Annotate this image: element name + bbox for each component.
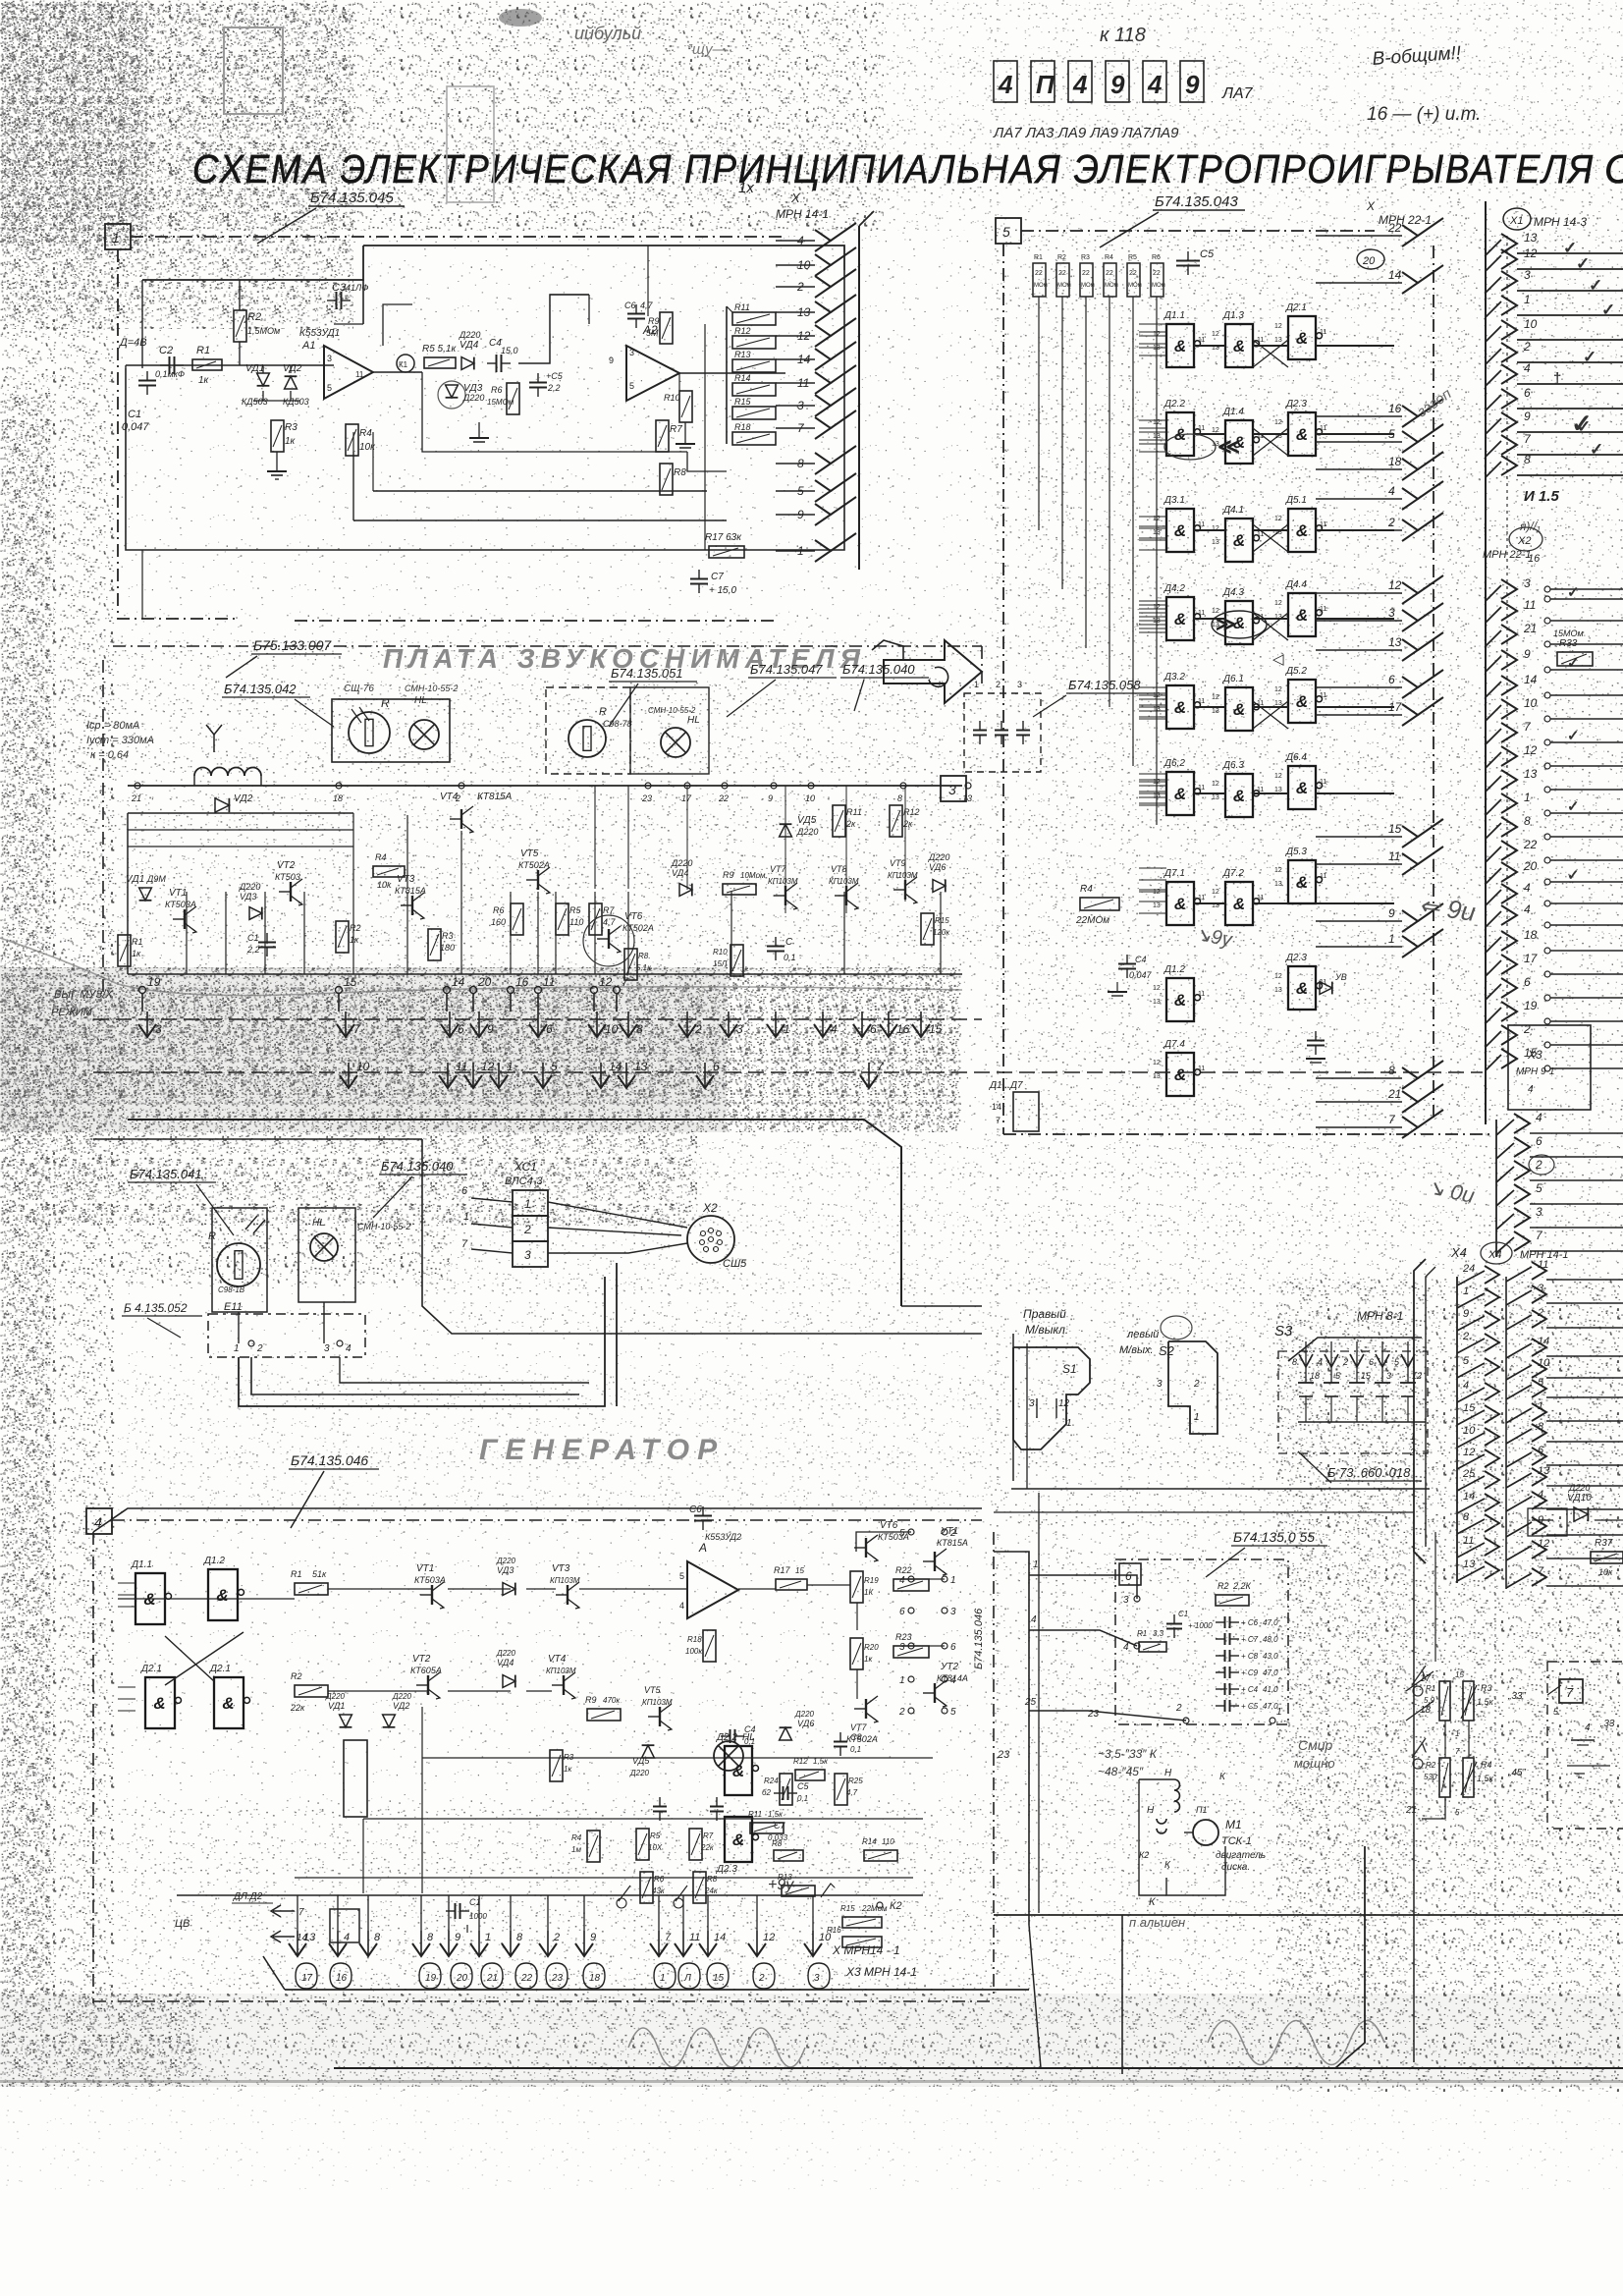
bottom dashed rails [93, 1018, 982, 1020]
svg-text:R19: R19 [864, 1576, 879, 1585]
svg-text:10: 10 [1524, 317, 1538, 331]
svg-text:21: 21 [1405, 1805, 1417, 1816]
transistor VT5 plate [526, 867, 550, 894]
gen right pin pairs [908, 1529, 914, 1535]
diode VD5 plate [780, 824, 792, 837]
svg-text:4: 4 [998, 70, 1013, 99]
svg-text:1: 1 [1410, 1432, 1416, 1443]
svg-text:Д1.3: Д1.3 [1222, 310, 1244, 321]
svg-text:С8: С8 [850, 1732, 862, 1742]
svg-text:R5: R5 [569, 905, 581, 915]
svg-text:R17 63к: R17 63к [705, 532, 742, 543]
motor coil [1174, 1779, 1180, 1790]
svg-text:ЦВ: ЦВ [175, 1918, 189, 1930]
svg-text:8: 8 [427, 1932, 434, 1943]
svg-text:4,7: 4,7 [846, 1788, 858, 1797]
svg-text:10: 10 [805, 793, 815, 803]
svg-text:21: 21 [486, 1973, 498, 1984]
svg-text:11: 11 [1198, 991, 1205, 998]
block 4 dashed border [112, 1519, 982, 1521]
svg-text:22: 22 [718, 793, 729, 803]
svg-text:5: 5 [551, 1060, 558, 1073]
ground A2 [684, 422, 686, 444]
svg-text:✓: ✓ [1601, 301, 1615, 319]
svg-text:R6: R6 [493, 905, 505, 915]
transistor VT6 gen [854, 1535, 878, 1561]
svg-text:25: 25 [1024, 1697, 1037, 1708]
svg-text:Б74.135.0 55: Б74.135.0 55 [1233, 1529, 1315, 1545]
svg-text:5М: 5М [646, 328, 659, 338]
svg-text:11: 11 [1257, 787, 1264, 793]
svg-text:двигатель: двигатель [1216, 1850, 1266, 1861]
svg-text:13: 13 [962, 793, 972, 803]
svg-text:13: 13 [1212, 539, 1219, 546]
svg-text:C3: C3 [332, 282, 347, 294]
trimmer R3 [1463, 1681, 1474, 1721]
svg-text:R4: R4 [1080, 884, 1093, 895]
svg-text:15: 15 [1388, 822, 1402, 836]
svg-text:4: 4 [1463, 1380, 1469, 1392]
svg-text:Х3 МРН 14-1: Х3 МРН 14-1 [845, 1965, 917, 1979]
svg-text:КТ605А: КТ605А [410, 1666, 442, 1675]
capacitor C4 gen [721, 1729, 744, 1743]
bottom long rail [93, 2000, 994, 2002]
svg-text:9: 9 [455, 1932, 460, 1943]
block 1 main loop [126, 368, 727, 550]
scan speckle top band right [884, 0, 1623, 231]
diode VD6 gen [780, 1727, 792, 1740]
svg-text:С98-78: С98-78 [603, 719, 632, 729]
svg-text:1: 1 [1276, 1707, 1282, 1718]
svg-text:VТ6: VТ6 [624, 911, 643, 922]
resistor R4 genl [587, 1831, 600, 1862]
scan smudge band fade2 [59, 1226, 452, 1285]
svg-text:VД6: VД6 [929, 862, 946, 872]
svg-text:15: 15 [795, 1566, 804, 1575]
svg-text:110: 110 [569, 917, 583, 927]
resistor R2 motor [1216, 1595, 1249, 1606]
svg-text:6: 6 [546, 1022, 553, 1036]
block 1 inner rect top [142, 246, 363, 280]
connector X3 circled row [296, 1963, 317, 1989]
svg-text:12: 12 [1274, 600, 1282, 607]
svg-text:&: & [1296, 329, 1308, 348]
resistor R23 gen [893, 1646, 929, 1658]
svg-text:18: 18 [333, 793, 343, 803]
svg-text:3: 3 [1123, 1595, 1129, 1606]
svg-text:КД503: КД503 [242, 397, 268, 407]
center region outline 2 [901, 1305, 982, 1307]
scan speckle bottom band wash [0, 1994, 1623, 2087]
scan speckle left margin deep [0, 393, 54, 1994]
gen long rows [422, 1757, 933, 1759]
svg-text:Д220: Д220 [239, 882, 260, 892]
resistor ladder R11-R18 [732, 312, 776, 325]
svg-text:15: 15 [1463, 1402, 1476, 1414]
plate extra vwires [186, 892, 188, 974]
svg-text:&: & [732, 1762, 744, 1780]
svg-text:12: 12 [763, 1932, 775, 1943]
svg-text:R4: R4 [375, 852, 387, 862]
svg-text:13: 13 [1153, 433, 1161, 440]
bottom row chevrons 1 [138, 1024, 156, 1037]
svg-text:23: 23 [997, 1749, 1010, 1761]
svg-text:4: 4 [1031, 1614, 1037, 1625]
svg-text:8: 8 [374, 1932, 381, 1943]
capacitor C6 gen [694, 1506, 712, 1530]
svg-text:R7: R7 [703, 1831, 714, 1840]
svg-text:R13: R13 [734, 350, 751, 359]
svg-text:R7: R7 [670, 424, 682, 435]
svg-text:11: 11 [1198, 1066, 1205, 1072]
svg-text:R5: R5 [650, 1831, 661, 1840]
svg-text:12: 12 [1212, 694, 1219, 701]
svg-text:2: 2 [1523, 1022, 1531, 1036]
svg-text:ЛА7: ЛА7 [1221, 85, 1254, 102]
svg-text:&: & [732, 1831, 744, 1849]
resistor R2 gen [295, 1685, 328, 1697]
svg-text:СМН-10-55-2: СМН-10-55-2 [357, 1222, 410, 1231]
svg-text:R3: R3 [442, 931, 454, 941]
svg-text:3: 3 [1029, 1398, 1035, 1409]
svg-text:3,3: 3,3 [1153, 1629, 1164, 1638]
svg-text:3: 3 [948, 782, 956, 797]
svg-text:2,2К: 2,2К [1232, 1581, 1252, 1591]
svg-text:1к: 1к [285, 436, 297, 447]
svg-text:РЕЖИМ: РЕЖИМ [51, 1007, 93, 1018]
svg-text:R33: R33 [1559, 638, 1578, 649]
svg-text:5: 5 [899, 1528, 905, 1539]
svg-text:Б74.135.046: Б74.135.046 [973, 1608, 985, 1669]
svg-text:10: 10 [1538, 1357, 1550, 1369]
svg-text:18: 18 [1310, 1371, 1320, 1381]
trimmer R2 [1439, 1758, 1450, 1797]
X3 MRN9-1 box [1508, 1025, 1591, 1110]
svg-text:МРН 9-1: МРН 9-1 [1516, 1066, 1554, 1077]
block 7 marker [1559, 1679, 1583, 1703]
svg-text:1: 1 [1066, 1418, 1072, 1429]
svg-text:✓: ✓ [1590, 440, 1603, 459]
scan speckle title strip [177, 137, 1453, 196]
svg-text:2: 2 [1409, 1448, 1416, 1458]
wire R2 up [239, 280, 241, 310]
svg-text:2: 2 [1462, 1331, 1469, 1342]
svg-text:С1: С1 [1178, 1610, 1188, 1618]
faint box top-left [224, 27, 283, 114]
svg-text:8: 8 [516, 1932, 523, 1943]
svg-text:Д1.2: Д1.2 [203, 1556, 225, 1566]
svg-text:С: С [785, 937, 793, 948]
plate inner wiring [127, 813, 129, 974]
svg-text:КП103М: КП103М [829, 877, 859, 886]
svg-text:11: 11 [1198, 337, 1205, 344]
svg-text:К2: К2 [890, 1900, 902, 1912]
svg-text:11: 11 [1538, 1259, 1548, 1271]
svg-text:12: 12 [1463, 1447, 1475, 1458]
svg-text:12: 12 [1058, 1398, 1070, 1409]
svg-text:+С5: +С5 [546, 371, 564, 381]
svg-text:R6: R6 [654, 1875, 665, 1884]
svg-text:КТ815А: КТ815А [937, 1538, 968, 1548]
svg-text:МОм: МОм [1105, 283, 1118, 289]
svg-text:11: 11 [1257, 337, 1264, 344]
svg-text:16: 16 [1528, 553, 1541, 565]
svg-text:мощно: мощно [1294, 1756, 1335, 1771]
resistor R8 plate [624, 949, 637, 980]
svg-text:20: 20 [1523, 859, 1538, 873]
E11 dashed box [208, 1314, 365, 1357]
svg-text:VТ7: VТ7 [770, 864, 787, 874]
capacitor C2 block5 [1307, 1031, 1325, 1055]
svg-text:14: 14 [1524, 673, 1538, 686]
svg-text:Iуст = 330мА: Iуст = 330мА [86, 735, 154, 746]
svg-text:12: 12 [1538, 1538, 1549, 1550]
svg-text:1: 1 [1524, 791, 1531, 804]
svg-text:4: 4 [1147, 70, 1163, 99]
svg-text:VТ1: VТ1 [169, 888, 187, 899]
diode VD2 [285, 376, 298, 389]
svg-text:5: 5 [327, 383, 332, 393]
svg-text:~3,5-″33″ К: ~3,5-″33″ К [1098, 1747, 1158, 1761]
diode VD4 plate [679, 884, 692, 897]
X4 bracket [1414, 1259, 1426, 1563]
svg-text:Д2.1: Д2.1 [209, 1664, 231, 1674]
svg-text:11: 11 [1388, 849, 1400, 863]
svg-text:R2: R2 [1217, 1581, 1229, 1591]
svg-text:К553УД2: К553УД2 [705, 1532, 741, 1542]
svg-text:19: 19 [425, 1973, 437, 1984]
diode VD4 [461, 357, 474, 370]
svg-text:+ С5: + С5 [1241, 1702, 1259, 1711]
svg-text:„33”: „33” [1507, 1691, 1526, 1702]
svg-text:Х2: Х2 [1517, 535, 1531, 547]
svg-text:22: 22 [1106, 270, 1113, 277]
svg-text:1: 1 [463, 1211, 469, 1223]
svg-text:&: & [1296, 979, 1308, 998]
svg-text:КТ502А: КТ502А [518, 860, 550, 870]
svg-text:Д6.4: Д6.4 [1285, 752, 1307, 763]
block 1 dashed border [131, 236, 785, 238]
svg-text:R9: R9 [585, 1695, 597, 1705]
scan speckle faint lower strip [0, 2092, 1623, 2190]
block5 gate row wires [1194, 345, 1225, 347]
svg-text:12: 12 [1274, 973, 1282, 980]
scan speckle top-left deep [0, 0, 147, 246]
svg-text:2,2: 2,2 [547, 383, 561, 393]
svg-text:11: 11 [1198, 610, 1205, 617]
lamp HL gen [714, 1741, 743, 1771]
svg-text:15: 15 [1455, 1670, 1464, 1679]
svg-text:1: 1 [524, 1197, 531, 1211]
svg-text:0,047: 0,047 [122, 421, 149, 433]
svg-text:К553УД1: К553УД1 [299, 328, 340, 339]
svg-text:6: 6 [1125, 1569, 1132, 1583]
svg-text:VТ3: VТ3 [552, 1563, 570, 1574]
pickup head dashed box [964, 693, 1041, 772]
svg-text:3: 3 [524, 1248, 531, 1262]
svg-text:12: 12 [1274, 419, 1282, 426]
svg-text:R1: R1 [291, 1569, 302, 1579]
resistor R8b genl [693, 1872, 706, 1903]
diode VD2 plate [215, 798, 229, 812]
svg-text:1к: 1к [564, 1765, 572, 1774]
diode VD1 plate [139, 888, 152, 901]
svg-text:20: 20 [477, 975, 492, 989]
svg-text:2: 2 [694, 1022, 702, 1036]
svg-text:R10: R10 [664, 393, 680, 403]
svg-text:2: 2 [1342, 1357, 1348, 1367]
svg-text:21: 21 [131, 793, 141, 803]
svg-text:R5 5,1к: R5 5,1к [422, 344, 457, 355]
diode VD5 gen [642, 1745, 655, 1758]
svg-text:13: 13 [1212, 794, 1219, 801]
wire opamp out [373, 371, 422, 373]
svg-text:3: 3 [1524, 576, 1531, 590]
trimmer wires [1444, 1721, 1446, 1758]
svg-text:13: 13 [1274, 337, 1282, 344]
svg-text:VТ2: VТ2 [277, 860, 296, 871]
svg-text:+ С9: + С9 [1241, 1668, 1259, 1677]
svg-text:1: 1 [1455, 1729, 1459, 1738]
switch S3 contacts [1288, 1338, 1426, 1422]
svg-text:6: 6 [950, 1642, 956, 1653]
op-amp A2 [626, 346, 679, 401]
resistor R19 gen [850, 1571, 863, 1603]
gate D2.3 gen [725, 1817, 752, 1862]
capacitor C6 [627, 304, 645, 328]
resistor R9 [660, 312, 673, 344]
svg-text:VД1: VД1 [126, 874, 144, 885]
svg-text:VД2: VД2 [393, 1701, 409, 1711]
resistor R15 genl [842, 1917, 882, 1928]
svg-text:10Х: 10Х [648, 1843, 663, 1852]
svg-text:М1: М1 [1225, 1818, 1242, 1831]
svg-text:Б74.135.041: Б74.135.041 [130, 1167, 202, 1181]
svg-text:П: П [1036, 70, 1055, 99]
svg-text:СЩ-76: СЩ-76 [344, 683, 374, 694]
svg-text:4: 4 [94, 1514, 102, 1530]
svg-text:10Мом: 10Мом [740, 871, 766, 880]
svg-text:5: 5 [950, 1707, 956, 1718]
block 4 marker [86, 1508, 112, 1534]
svg-text:†: † [1553, 370, 1561, 387]
svg-text:4: 4 [1123, 1642, 1129, 1653]
resistor R11 plate [833, 805, 845, 837]
svg-text:12: 12 [1524, 743, 1538, 757]
svg-text:1: 1 [1538, 1400, 1543, 1412]
center region outline [422, 1139, 982, 1334]
resistor R4 [346, 424, 358, 456]
svg-text:1,5к: 1,5к [768, 1810, 784, 1819]
capacitor C5b [529, 373, 547, 397]
svg-text:С98-1В: С98-1В [218, 1285, 245, 1294]
svg-text:МОм: МОм [1081, 283, 1095, 289]
svg-text:Д220: Д220 [325, 1692, 346, 1701]
svg-text:11: 11 [1320, 779, 1326, 786]
svg-text:9: 9 [1463, 1308, 1469, 1320]
svg-text:22: 22 [1129, 270, 1137, 277]
svg-text:R1: R1 [1137, 1629, 1147, 1638]
scan speckle plate area [108, 638, 982, 972]
svg-text:Д7.2: Д7.2 [1222, 868, 1244, 879]
capacitor C2 [160, 356, 184, 374]
svg-text:14: 14 [1538, 1336, 1549, 1347]
svg-text:ДЛ.Д2: ДЛ.Д2 [233, 1891, 263, 1902]
svg-text:3: 3 [1536, 1205, 1542, 1219]
svg-text:5: 5 [1002, 224, 1010, 240]
capacitor C1 plate [258, 933, 276, 957]
svg-text:Д2.2: Д2.2 [1163, 399, 1185, 410]
svg-text:11: 11 [1320, 692, 1326, 699]
svg-text:23: 23 [551, 1973, 564, 1984]
svg-text:Б75.133.007: Б75.133.007 [253, 637, 332, 653]
svg-text:R15: R15 [734, 397, 752, 407]
opamp A gen [687, 1561, 738, 1618]
svg-text:5: 5 [1455, 1808, 1460, 1817]
svg-text:22: 22 [1058, 270, 1066, 277]
mid wire loop [239, 1277, 605, 1406]
svg-text:6: 6 [458, 1022, 464, 1036]
svg-text:18: 18 [1388, 455, 1402, 468]
svg-text:4: 4 [1524, 361, 1531, 375]
capacitor C3 [327, 292, 351, 309]
svg-text:Б74.135.051: Б74.135.051 [611, 666, 683, 681]
scan speckle right column low [1276, 1277, 1623, 2092]
svg-text:≪: ≪ [1217, 434, 1240, 459]
svg-text:к = 0,64: к = 0,64 [90, 749, 129, 761]
svg-text:8: 8 [1388, 1064, 1395, 1077]
svg-text:3: 3 [1157, 1379, 1163, 1390]
svg-text:✓: ✓ [1571, 409, 1593, 438]
svg-text:15Л: 15Л [713, 959, 728, 968]
lamp box mid HL [298, 1208, 355, 1302]
svg-text:12: 12 [1274, 516, 1282, 522]
svg-text:8: 8 [1524, 453, 1531, 466]
svg-text:0,1: 0,1 [784, 953, 796, 962]
svg-text:&: & [153, 1694, 165, 1713]
svg-text:9: 9 [1524, 410, 1531, 423]
plate top rail [128, 785, 962, 787]
svg-text:&: & [1174, 337, 1186, 355]
svg-text:Д220: Д220 [459, 330, 480, 340]
svg-text:Д1.1: Д1.1 [1163, 310, 1185, 321]
svg-text:3: 3 [629, 348, 634, 357]
svg-text:22: 22 [1082, 270, 1090, 277]
X3r bus [1495, 1120, 1497, 1257]
svg-text:R8: R8 [707, 1875, 718, 1884]
resistor bank R1-R6 block5 [1033, 263, 1046, 297]
resistor R3 [271, 420, 284, 452]
svg-text:2: 2 [1523, 340, 1531, 354]
stylus lamp box [332, 699, 450, 762]
resistor R17 [709, 546, 744, 558]
handwritten wave 1 [628, 2028, 805, 2067]
svg-text:VД5: VД5 [797, 815, 817, 826]
svg-text:Б74.135.045: Б74.135.045 [310, 190, 394, 206]
svg-text:2: 2 [1537, 1307, 1543, 1319]
diode VD1 [257, 373, 270, 386]
svg-text:R11: R11 [734, 302, 750, 312]
svg-text:С5: С5 [797, 1781, 809, 1791]
svg-text:12: 12 [1153, 1060, 1161, 1066]
svg-text:22Мом: 22Мом [861, 1904, 888, 1913]
svg-text:Д7.4: Д7.4 [1163, 1039, 1185, 1050]
scan smudge band mid-left [0, 967, 962, 1132]
resistor R22 gen [893, 1579, 929, 1591]
svg-text:17: 17 [301, 1973, 313, 1984]
svg-text:КП103М: КП103М [888, 871, 918, 880]
op-amp A1 [324, 346, 373, 399]
